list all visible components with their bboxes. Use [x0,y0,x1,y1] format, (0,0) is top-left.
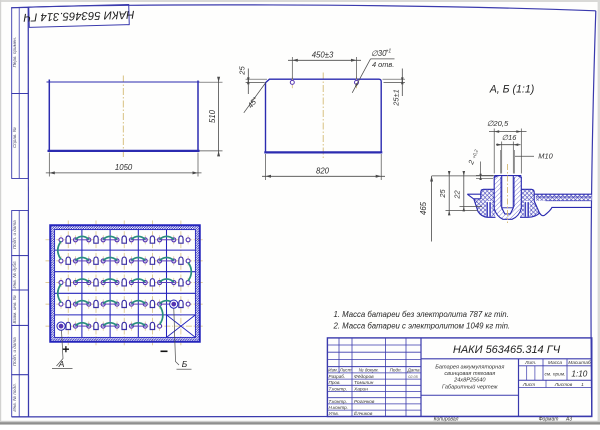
top-left designation stamp (rotated 180) [23,4,135,27]
svg-text:24х8Р25640: 24х8Р25640 [453,377,486,383]
svg-text:Изм.: Изм. [328,368,338,373]
svg-text:Т.контр.: Т.контр. [329,386,348,391]
front view outline [47,80,200,152]
svg-text:Ёлчиков: Ёлчиков [354,410,373,417]
svg-text:Харин: Харин [353,386,368,392]
right seal bars [524,201,530,217]
svg-text:Масса: Масса [548,360,563,366]
svg-text:А, Б (1:1): А, Б (1:1) [489,83,535,95]
leader B with minus [161,309,192,370]
designation box [421,358,592,360]
left lid crosshatched wing [474,189,495,217]
svg-text:Подп. и дата: Подп. и дата [12,220,17,249]
svg-text:Подп.: Подп. [390,368,402,373]
svg-text:Рогачков: Рогачков [354,399,375,405]
lit massa masshtab cells [519,359,592,388]
svg-text:Подп. и дата: Подп. и дата [12,337,17,366]
side view centerline [322,73,324,159]
lid bottom contour right [540,207,592,215]
svg-text:А: А [58,359,65,369]
front view centerline [122,76,124,158]
svg-text:№ докум.: № докум. [359,368,379,373]
dimension 820 [262,154,385,180]
margin box Справ. № [12,94,29,179]
dimension 2+0.2 [466,149,494,180]
plan view column centerlines [67,221,69,347]
drawing frame border [11,5,596,11]
hole circle right [355,77,359,88]
dimension 510 [200,77,223,157]
svg-text:Листов: Листов [554,382,573,388]
extension line top of terminal [432,175,494,177]
svg-text:02.05: 02.05 [408,375,418,379]
svg-text:450±3: 450±3 [312,51,334,60]
dimension 25±1 [383,69,406,107]
svg-text:22: 22 [452,190,461,199]
svg-text:А3: А3 [565,417,572,423]
margin box Инв. № дубл. [12,256,29,290]
dimension d20.5 [487,119,527,174]
svg-text:820: 820 [316,167,330,176]
detail centerline [507,164,509,223]
hole circle left [290,77,294,88]
svg-text:Инв. № подл.: Инв. № подл. [12,383,17,412]
svg-text:2. Масса батареи с электролито: 2. Масса батареи с электролитом 1049 кг … [333,322,511,331]
svg-text:Лист: Лист [522,382,535,388]
right lid crosshatched wing [521,189,540,217]
svg-text:НАКИ 563465.314 ГЧ: НАКИ 563465.314 ГЧ [453,344,561,356]
svg-text:Справ. №: Справ. № [12,127,17,148]
svg-text:510: 510 [208,109,217,123]
svg-text:25: 25 [438,189,447,199]
margin box Подп. и дата [12,211,29,256]
cell plugs and terminals [59,235,190,331]
signature rows text [328,368,420,418]
svg-text:Н.контр.: Н.контр. [329,405,348,410]
side view outline [264,79,382,152]
svg-text:465: 465 [419,201,428,215]
svg-text:4 отв.: 4 отв. [372,60,394,69]
svg-text:Лит.: Лит. [524,360,536,366]
svg-text:1. Масса батареи без электроли: 1. Масса батареи без электролита 787 кг … [334,310,509,319]
svg-text:см. прим.: см. прим. [545,372,566,377]
svg-text:Формат: Формат [539,417,559,423]
left seal bars [486,201,492,217]
svg-text:Перв. примен.: Перв. примен. [12,37,17,68]
chamfer 45 deg label [244,82,266,112]
svg-text:Б: Б [182,359,188,369]
svg-text:Масштаб: Масштаб [568,360,591,366]
svg-text:Разраб.: Разраб. [329,374,346,379]
dimension 450±3 [288,51,361,80]
name box [421,394,519,396]
margin box Инв. № подл. [12,375,29,417]
margin box Перв. примен. [12,8,29,94]
thread label M10 [500,150,553,174]
margin box Взам. инв. № [12,290,29,325]
title block verticals [339,338,421,417]
margin box Подп. и дата [12,325,29,374]
leader A with plus [52,331,73,370]
svg-text:1: 1 [581,382,584,388]
teal connectors [58,236,192,326]
svg-text:Лист: Лист [339,368,352,373]
boss section with threaded hole (hatched) [494,176,521,220]
svg-text:Фёдоров: Фёдоров [354,374,374,380]
plan view row centerlines [46,239,205,241]
svg-text:∅20,5: ∅20,5 [487,119,509,128]
title block outline [327,338,591,417]
dimension 25 (detail) [438,171,478,215]
svg-text:1050: 1050 [115,163,133,172]
bottom contour [474,199,540,218]
svg-text:+1: +1 [386,49,392,55]
svg-text:Батарея аккумуляторная: Батарея аккумуляторная [435,364,504,370]
hole thread lines [499,177,501,207]
dimension 1050 [46,153,202,177]
hole bottom cone line [502,207,514,209]
svg-text:25±1: 25±1 [392,89,401,106]
svg-text:Инв. № дубл.: Инв. № дубл. [12,260,17,288]
crossed empty cell [167,315,196,338]
dimension 25 chamfer [237,66,267,94]
svg-text:25: 25 [237,66,246,76]
svg-text:Т.контр.: Т.контр. [329,399,348,404]
svg-text:Пров.: Пров. [329,380,341,385]
title block left horizontals [327,345,421,410]
dimension 465 [419,176,433,242]
hump outline [481,189,534,201]
dimension 22 (detail) [452,171,482,211]
top collar tabs [494,176,521,179]
left lid edge strip [467,194,481,199]
terminal A (plus) [57,322,65,330]
svg-text:свинцовая тяговая: свинцовая тяговая [444,371,495,377]
plan view grid [55,230,196,338]
battery lid right (crosshatched strip) [535,194,592,201]
plan view hatched border band [50,225,200,342]
svg-text:Габаритный чертеж: Габаритный чертеж [442,383,499,390]
svg-text:Копировал: Копировал [434,417,459,423]
leader d30 4 holes [352,49,394,93]
svg-text:Взам. инв. №: Взам. инв. № [12,295,17,323]
dimension d16 [496,133,521,174]
svg-text:Томилин: Томилин [354,380,374,386]
svg-text:Дата: Дата [406,368,420,373]
svg-text:М10: М10 [538,152,553,161]
svg-text:Утв.: Утв. [329,411,339,416]
terminal B (minus) [170,300,178,308]
svg-text:1:10: 1:10 [571,370,587,379]
svg-text:∅16: ∅16 [502,133,518,142]
